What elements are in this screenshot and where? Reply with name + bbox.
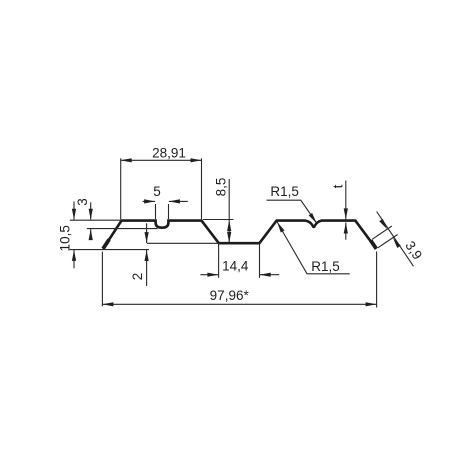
svg-text:R1,5: R1,5 (270, 184, 299, 199)
svg-text:2: 2 (130, 273, 145, 281)
svg-text:10,5: 10,5 (58, 225, 73, 251)
svg-text:t: t (331, 184, 346, 188)
svg-text:R1,5: R1,5 (311, 259, 340, 274)
svg-text:3,9: 3,9 (402, 238, 425, 262)
svg-text:28,91: 28,91 (152, 146, 186, 161)
svg-text:3: 3 (75, 198, 90, 206)
svg-text:5: 5 (153, 184, 161, 199)
svg-text:8,5: 8,5 (214, 178, 229, 197)
svg-text:97,96*: 97,96* (210, 288, 250, 303)
svg-text:14,4: 14,4 (222, 258, 249, 273)
